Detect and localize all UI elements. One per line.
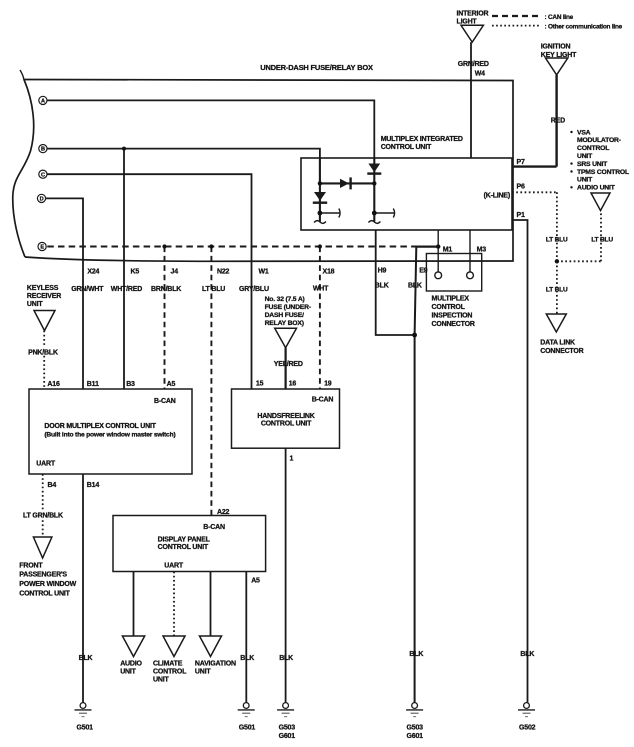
svg-text:A: A [41, 99, 45, 105]
svg-text:G601: G601 [279, 733, 296, 740]
svg-text:WHT/RED: WHT/RED [111, 286, 142, 293]
svg-text:15: 15 [256, 380, 264, 387]
svg-text:GRY/BLU: GRY/BLU [239, 286, 269, 293]
svg-text:BLK: BLK [79, 655, 93, 662]
svg-text:FRONT: FRONT [19, 562, 43, 569]
svg-text:X24: X24 [87, 269, 99, 276]
svg-text:UNIT: UNIT [120, 669, 136, 676]
svg-text:B: B [41, 147, 45, 153]
svg-text:INSPECTION: INSPECTION [432, 312, 473, 319]
svg-text:G502: G502 [519, 724, 536, 731]
svg-text:NAVIGATION: NAVIGATION [195, 661, 236, 668]
svg-text:A16: A16 [47, 381, 60, 388]
svg-text:(K-LINE): (K-LINE) [484, 192, 510, 199]
svg-text:MULTIPLEX: MULTIPLEX [432, 295, 470, 302]
svg-text:CONTROL: CONTROL [153, 669, 187, 676]
svg-text:P7: P7 [517, 159, 525, 166]
svg-text:CONTROL: CONTROL [577, 145, 609, 152]
svg-text:A22: A22 [217, 509, 230, 516]
svg-text:No. 32 (7.5 A): No. 32 (7.5 A) [265, 296, 305, 303]
svg-text:D: D [40, 197, 44, 203]
svg-text:RED: RED [551, 118, 565, 125]
svg-text:LT BLU: LT BLU [591, 237, 613, 244]
svg-text:BLK: BLK [375, 282, 389, 289]
svg-text:UART: UART [36, 461, 56, 468]
svg-text:LT BLU: LT BLU [202, 286, 225, 293]
svg-text:W1: W1 [259, 269, 269, 276]
svg-text:G601: G601 [407, 733, 424, 740]
svg-text:1: 1 [290, 455, 294, 462]
svg-text:KEYLESS: KEYLESS [27, 285, 59, 292]
svg-text:LT BLU: LT BLU [546, 237, 568, 244]
svg-text:KEY LIGHT: KEY LIGHT [541, 52, 577, 59]
svg-text:UNIT: UNIT [27, 301, 43, 308]
svg-text:BLK: BLK [409, 651, 423, 658]
svg-text:C: C [41, 172, 45, 178]
svg-text:DOOR MULTIPLEX CONTROL UNIT: DOOR MULTIPLEX CONTROL UNIT [44, 423, 156, 430]
svg-text:P6: P6 [517, 184, 525, 191]
svg-text:H9: H9 [378, 267, 387, 274]
svg-text:DISPLAY PANEL: DISPLAY PANEL [158, 536, 211, 543]
svg-text:UART: UART [164, 562, 184, 569]
svg-text:B-CAN: B-CAN [312, 396, 334, 403]
svg-text:IGNITION: IGNITION [541, 44, 571, 51]
svg-text:P1: P1 [517, 212, 525, 219]
svg-text:W4: W4 [475, 71, 485, 78]
svg-text:TPMS CONTROL: TPMS CONTROL [577, 169, 629, 176]
svg-text:FUSE (UNDER-: FUSE (UNDER- [265, 304, 311, 311]
svg-text:UNIT: UNIT [153, 677, 169, 684]
svg-text:19: 19 [324, 380, 332, 387]
svg-text:UNIT: UNIT [577, 177, 593, 184]
svg-text:MODULATOR-: MODULATOR- [577, 137, 621, 144]
svg-text:CONTROL UNIT: CONTROL UNIT [261, 421, 312, 428]
svg-text:WHT: WHT [313, 285, 329, 292]
svg-text:G501: G501 [77, 724, 94, 731]
svg-text:B-CAN: B-CAN [154, 398, 176, 405]
svg-text:(Built into the power window m: (Built into the power window master swit… [44, 431, 175, 438]
svg-text:B3: B3 [126, 381, 135, 388]
svg-text:N22: N22 [217, 269, 230, 276]
svg-text:E: E [40, 245, 44, 251]
svg-text:RECEIVER: RECEIVER [27, 293, 61, 300]
svg-text:M3: M3 [477, 247, 487, 254]
svg-text:PNK/BLK: PNK/BLK [28, 350, 58, 357]
svg-text:LIGHT: LIGHT [457, 19, 478, 26]
svg-text:MULTIPLEX INTEGRATED: MULTIPLEX INTEGRATED [381, 136, 463, 143]
svg-text:HANDSFREELINK: HANDSFREELINK [257, 413, 314, 420]
svg-text:CONTROL UNIT: CONTROL UNIT [19, 590, 70, 597]
svg-text:G503: G503 [279, 724, 296, 731]
svg-text:VSA: VSA [577, 129, 591, 136]
svg-text:B11: B11 [87, 381, 99, 388]
svg-text:M1: M1 [443, 247, 453, 254]
svg-text:UNIT: UNIT [577, 153, 593, 160]
svg-text:INTERIOR: INTERIOR [457, 11, 489, 18]
svg-text:16: 16 [289, 380, 297, 387]
svg-text:DATA LINK: DATA LINK [540, 339, 575, 346]
svg-text:AUDIO UNIT: AUDIO UNIT [577, 185, 616, 192]
svg-text:BLK: BLK [279, 655, 293, 662]
svg-text:LT BLU: LT BLU [546, 286, 568, 293]
svg-text:: CAN line: : CAN line [545, 14, 574, 21]
svg-text:GRN/WHT: GRN/WHT [71, 286, 104, 293]
svg-text:POWER WINDOW: POWER WINDOW [19, 581, 76, 588]
svg-text:UNDER-DASH FUSE/RELAY BOX: UNDER-DASH FUSE/RELAY BOX [260, 63, 373, 72]
svg-text:CONTROL UNIT: CONTROL UNIT [158, 544, 209, 551]
svg-text:BLK: BLK [520, 651, 534, 658]
svg-text:G501: G501 [239, 724, 256, 731]
svg-text:DASH FUSE/: DASH FUSE/ [265, 312, 304, 319]
svg-text:E9: E9 [419, 267, 427, 274]
svg-text:BRN/BLK: BRN/BLK [151, 286, 181, 293]
svg-text:SRS UNIT: SRS UNIT [577, 161, 608, 168]
svg-text:G503: G503 [407, 724, 424, 731]
svg-text:J4: J4 [171, 269, 179, 276]
svg-text:PASSENGER'S: PASSENGER'S [19, 572, 67, 579]
svg-text:BLK: BLK [408, 282, 422, 289]
svg-text:A5: A5 [167, 381, 176, 388]
svg-text:: Other communication line: : Other communication line [545, 23, 623, 30]
svg-text:CONNECTOR: CONNECTOR [432, 321, 475, 328]
svg-text:UNIT: UNIT [195, 669, 211, 676]
svg-text:CONTROL: CONTROL [432, 304, 466, 311]
svg-text:CONNECTOR: CONNECTOR [540, 348, 583, 355]
svg-text:B14: B14 [87, 482, 100, 489]
svg-text:LT GRN/BLK: LT GRN/BLK [23, 512, 63, 519]
svg-text:RELAY BOX): RELAY BOX) [265, 320, 304, 327]
svg-text:AUDIO: AUDIO [120, 661, 142, 668]
svg-text:K5: K5 [131, 269, 140, 276]
svg-text:BLK: BLK [240, 655, 254, 662]
svg-text:X18: X18 [323, 269, 335, 276]
svg-text:B-CAN: B-CAN [203, 524, 225, 531]
svg-text:A5: A5 [251, 577, 260, 584]
svg-text:CONTROL UNIT: CONTROL UNIT [381, 144, 432, 151]
svg-text:YEL/RED: YEL/RED [274, 361, 303, 368]
svg-text:GRN/RED: GRN/RED [458, 61, 489, 68]
svg-text:B4: B4 [48, 482, 57, 489]
svg-text:CLIMATE: CLIMATE [153, 661, 183, 668]
